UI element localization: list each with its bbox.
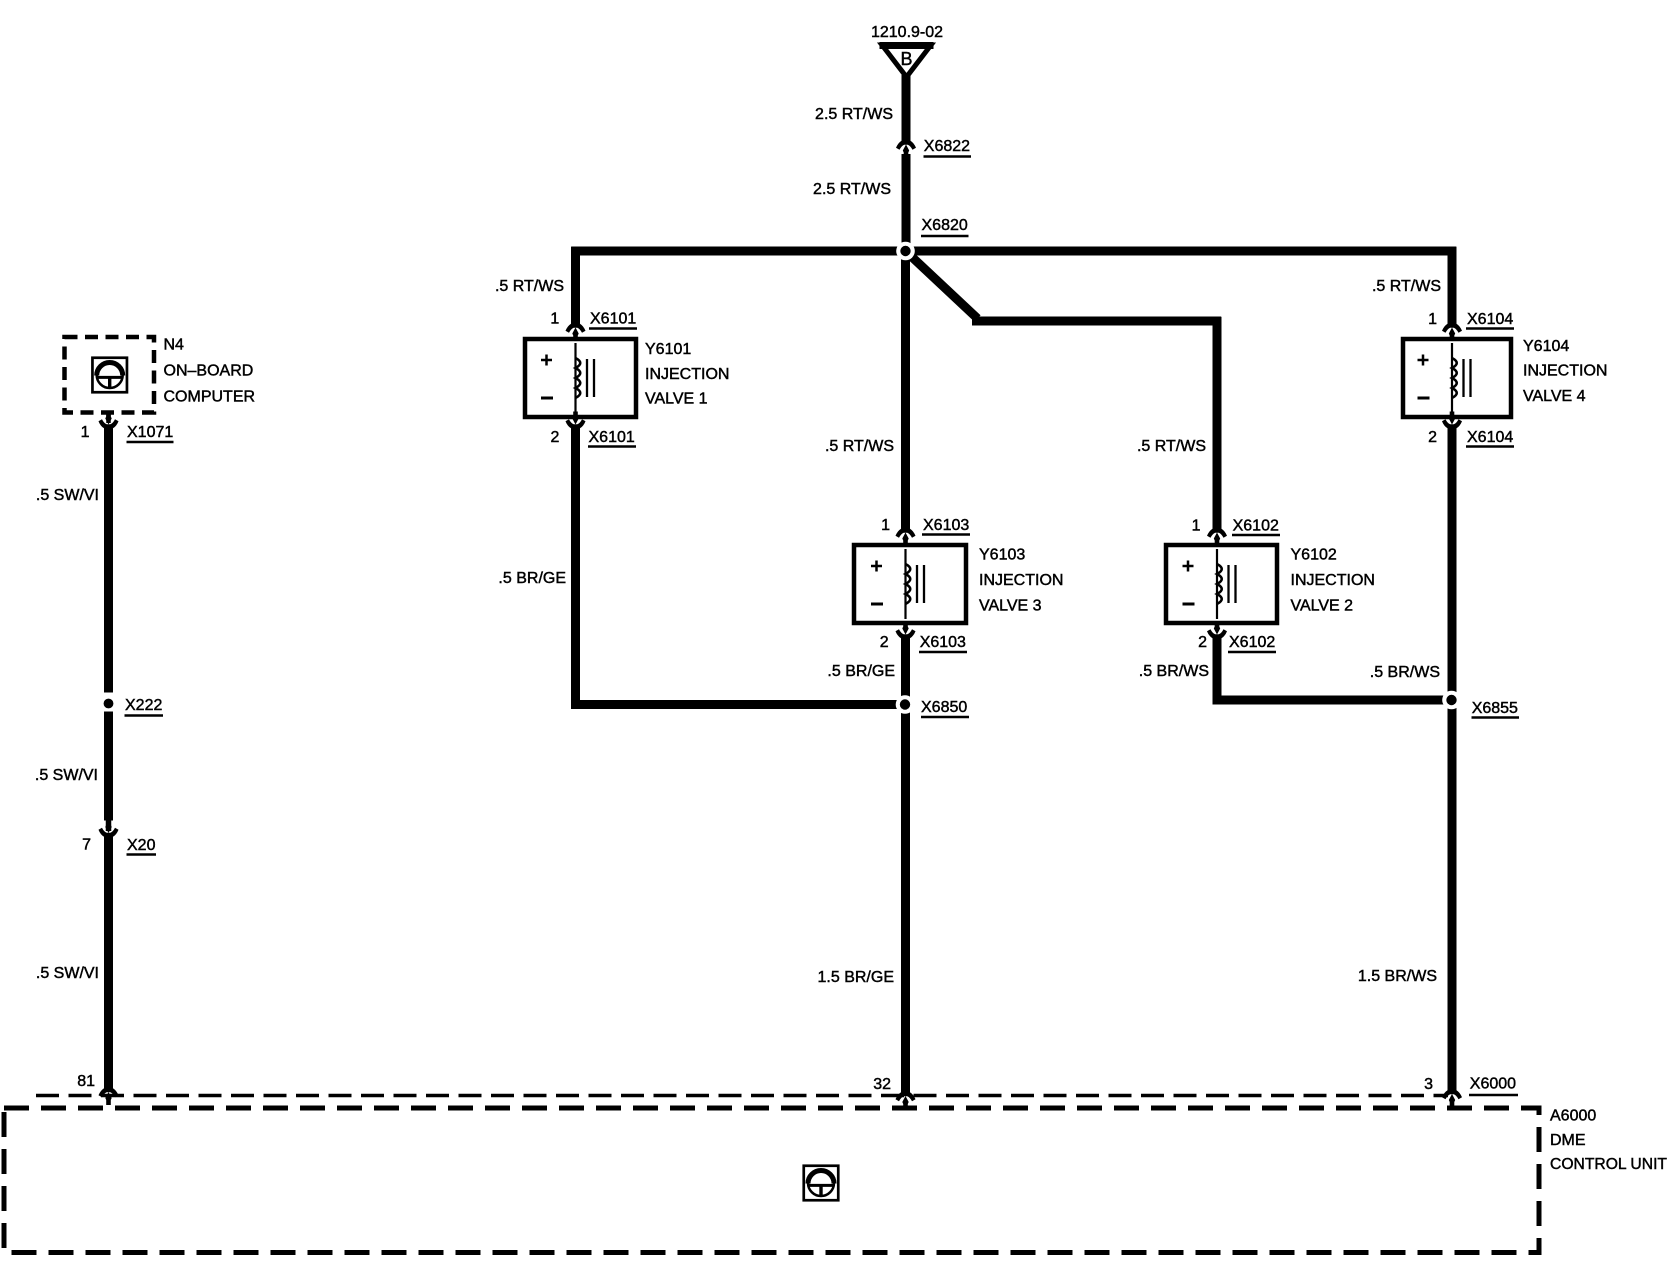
svg-text:.5 SW/VI: .5 SW/VI xyxy=(36,487,99,504)
svg-text:81: 81 xyxy=(77,1073,95,1090)
wire X222 to X20 xyxy=(104,712,113,821)
wire valve 4 pin 2 down through X6855 to DME pin 3 xyxy=(1448,429,1457,1089)
svg-text:1: 1 xyxy=(81,424,90,441)
svg-text:X6103: X6103 xyxy=(920,634,966,651)
svg-text:X6855: X6855 xyxy=(1472,700,1518,717)
connector X6102 pin 2 xyxy=(1207,622,1227,642)
junction node X6850 xyxy=(896,695,915,714)
svg-text:Y6102: Y6102 xyxy=(1291,547,1337,564)
svg-text:DME: DME xyxy=(1550,1132,1586,1149)
svg-text:2: 2 xyxy=(1198,634,1207,651)
label A6000 DME CONTROL UNIT xyxy=(1550,1108,1667,1174)
splice node X222 xyxy=(104,699,114,709)
svg-text:INJECTION: INJECTION xyxy=(1291,572,1375,589)
svg-text:X6820: X6820 xyxy=(922,217,968,234)
connector DME pin 81 xyxy=(99,1085,119,1105)
on-board computer N4 dashed box xyxy=(65,337,155,413)
injection valve Y6104 xyxy=(1403,339,1511,417)
svg-text:.5 RT/WS: .5 RT/WS xyxy=(1137,438,1206,455)
svg-text:X20: X20 xyxy=(127,837,156,854)
svg-text:X6104: X6104 xyxy=(1467,311,1513,328)
svg-text:INJECTION: INJECTION xyxy=(1523,363,1607,380)
connector DME pin 3 xyxy=(1442,1087,1462,1107)
label Y6104 INJECTION VALVE 4 xyxy=(1523,338,1607,405)
wire X1071 to X222 xyxy=(104,429,113,693)
label Y6101 INJECTION VALVE 1 xyxy=(645,341,729,408)
connector X20 pin 7 xyxy=(99,820,119,840)
connector X6104 pin 1 xyxy=(1442,321,1462,341)
wire X6820 down to valve 3 pin 1 xyxy=(901,251,910,528)
svg-text:X6101: X6101 xyxy=(589,429,635,446)
svg-text:1.5 BR/GE: 1.5 BR/GE xyxy=(818,969,894,986)
svg-text:.5 BR/GE: .5 BR/GE xyxy=(498,570,566,587)
svg-text:VALVE 4: VALVE 4 xyxy=(1523,388,1586,405)
connector X1071 pin 1 xyxy=(99,412,119,432)
DME control unit A6000 dashed box xyxy=(4,1108,1539,1253)
connector X6101 pin 1 xyxy=(566,321,586,341)
injection valve Y6103 xyxy=(854,545,966,623)
svg-text:1: 1 xyxy=(1428,311,1437,328)
svg-text:.5 BR/WS: .5 BR/WS xyxy=(1139,663,1209,680)
svg-text:1210.9-02: 1210.9-02 xyxy=(871,24,943,41)
wire valve 3 pin 2 down through X6850 to DME pin 32 xyxy=(901,639,910,1091)
connector X6103 pin 2 xyxy=(896,622,916,642)
svg-text:1: 1 xyxy=(881,517,890,534)
svg-text:CONTROL UNIT: CONTROL UNIT xyxy=(1550,1156,1667,1173)
svg-text:.5 BR/GE: .5 BR/GE xyxy=(827,663,895,680)
svg-text:X6850: X6850 xyxy=(921,699,967,716)
label N4 ON-BOARD COMPUTER xyxy=(164,337,256,406)
wire X20 to DME pin 81 xyxy=(104,838,113,1088)
connector strip X6000 dashed line xyxy=(36,1094,1448,1098)
svg-text:2: 2 xyxy=(1428,429,1437,446)
svg-text:3: 3 xyxy=(1424,1076,1433,1093)
connector X6104 pin 2 xyxy=(1442,412,1462,432)
wire bus drop to valve 1 pin 1 xyxy=(571,247,580,323)
svg-text:COMPUTER: COMPUTER xyxy=(164,389,256,406)
svg-text:.5 RT/WS: .5 RT/WS xyxy=(495,278,564,295)
connector DME pin 32 xyxy=(896,1089,916,1109)
svg-text:Y6103: Y6103 xyxy=(979,547,1025,564)
wire valve 1 pin 2 down and right to X6850 xyxy=(576,429,898,705)
svg-text:A6000: A6000 xyxy=(1550,1108,1596,1125)
wire horizontal shelf to valve 2 column xyxy=(972,317,1221,326)
svg-text:B: B xyxy=(900,49,912,69)
svg-text:Y6104: Y6104 xyxy=(1523,338,1569,355)
svg-text:INJECTION: INJECTION xyxy=(979,572,1063,589)
svg-text:1.5 BR/WS: 1.5 BR/WS xyxy=(1358,968,1437,985)
power source triangle B xyxy=(880,45,934,77)
svg-text:VALVE 3: VALVE 3 xyxy=(979,598,1042,615)
wire bus drop to valve 4 pin 1 xyxy=(1448,247,1457,323)
svg-text:X6102: X6102 xyxy=(1229,634,1275,651)
connector X6103 pin 1 xyxy=(896,526,916,546)
wire down to valve 2 pin 1 xyxy=(1213,317,1222,528)
svg-text:X6000: X6000 xyxy=(1470,1076,1516,1093)
label Y6102 INJECTION VALVE 2 xyxy=(1291,547,1375,615)
injection valve Y6101 xyxy=(525,339,636,417)
svg-text:Y6101: Y6101 xyxy=(645,341,691,358)
wire X6822 to X6820 xyxy=(902,154,911,251)
svg-text:X1071: X1071 xyxy=(127,424,173,441)
svg-text:2: 2 xyxy=(880,634,889,651)
wire triangle B to X6822 xyxy=(902,75,911,140)
svg-text:.5 RT/WS: .5 RT/WS xyxy=(825,438,894,455)
svg-text:VALVE 2: VALVE 2 xyxy=(1291,598,1354,615)
svg-text:2.5 RT/WS: 2.5 RT/WS xyxy=(813,181,891,198)
svg-text:X6103: X6103 xyxy=(923,517,969,534)
svg-text:2.5 RT/WS: 2.5 RT/WS xyxy=(815,106,893,123)
svg-text:X6822: X6822 xyxy=(924,138,970,155)
label Y6103 INJECTION VALVE 3 xyxy=(979,547,1063,615)
svg-text:1: 1 xyxy=(1192,518,1201,535)
svg-text:X6104: X6104 xyxy=(1467,429,1513,446)
connector X6102 pin 1 xyxy=(1207,526,1227,546)
junction node X6820 xyxy=(896,242,915,261)
svg-text:X222: X222 xyxy=(125,697,162,714)
svg-text:.5 RT/WS: .5 RT/WS xyxy=(1372,278,1441,295)
svg-text:VALVE 1: VALVE 1 xyxy=(645,391,708,408)
svg-text:32: 32 xyxy=(873,1076,891,1093)
svg-text:1: 1 xyxy=(550,311,559,328)
svg-text:.5 SW/VI: .5 SW/VI xyxy=(36,965,99,982)
svg-text:7: 7 xyxy=(82,837,91,854)
wire valve 2 pin 2 down and right to X6855 xyxy=(1217,639,1444,700)
wire horizontal bus from valve1 drop to valve4 drop xyxy=(571,247,1456,256)
steering wheel icon (A6000) xyxy=(804,1166,839,1201)
connector X6101 pin 2 xyxy=(566,412,586,432)
connector X6822 xyxy=(896,138,916,158)
wire diagonal X6820 to valve 2 branch xyxy=(906,251,978,319)
svg-text:.5 SW/VI: .5 SW/VI xyxy=(35,767,98,784)
svg-text:.5 BR/WS: .5 BR/WS xyxy=(1370,664,1440,681)
svg-text:X6102: X6102 xyxy=(1233,518,1279,535)
injection valve Y6102 xyxy=(1166,545,1277,623)
junction node X6855 xyxy=(1442,691,1461,710)
svg-text:INJECTION: INJECTION xyxy=(645,366,729,383)
svg-text:ON–BOARD: ON–BOARD xyxy=(164,363,254,380)
svg-text:2: 2 xyxy=(550,429,559,446)
svg-text:X6101: X6101 xyxy=(590,311,636,328)
svg-text:N4: N4 xyxy=(164,337,185,354)
steering wheel icon (N4) xyxy=(92,358,127,393)
